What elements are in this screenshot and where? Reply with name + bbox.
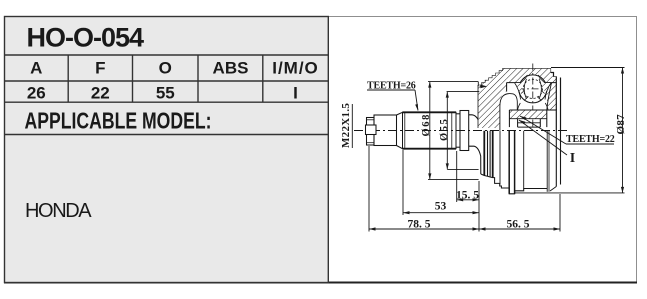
svg-text:55: 55 (156, 83, 175, 102)
thread section (367, 118, 375, 146)
dia55 extension lines (447, 91, 480, 93)
svg-text:O: O (159, 59, 172, 78)
cage arcs (515, 83, 521, 100)
ball shading (521, 75, 546, 101)
svg-text:I: I (570, 151, 575, 166)
dia68 extension lines (428, 81, 478, 83)
leader TEETH=26 (367, 89, 415, 91)
svg-text:78. 5: 78. 5 (408, 218, 431, 230)
bottom border line (4, 282, 637, 284)
right face top half (555, 77, 557, 131)
svg-text:56. 5: 56. 5 (507, 218, 530, 230)
svg-text:Ø68: Ø68 (421, 113, 432, 136)
cotter pin rect (366, 125, 377, 135)
svg-text:22: 22 (91, 83, 110, 102)
spline section (403, 112, 457, 148)
front face inner (506, 83, 508, 92)
boot flange (460, 111, 469, 151)
ball inner dashed circle (523, 79, 542, 98)
svg-text:I/M/O: I/M/O (272, 59, 319, 78)
race groove arcs (518, 103, 521, 110)
dia55 dimension line (446, 92, 448, 170)
svg-text:M22X1.5: M22X1.5 (340, 103, 352, 148)
label M22X1.5 underline (351, 104, 353, 148)
svg-text:TEETH=26: TEETH=26 (367, 81, 416, 92)
dim line 78.5 (369, 228, 479, 230)
bottom silhouette (481, 174, 547, 194)
dia87 dimension line (622, 68, 624, 193)
svg-text:ABS: ABS (213, 59, 249, 78)
svg-text:HONDA: HONDA (25, 200, 92, 222)
svg-text:APPLICABLE MODEL:: APPLICABLE MODEL: (25, 108, 212, 134)
cavity ceiling (507, 82, 557, 84)
svg-text:F: F (95, 59, 105, 78)
housing front face (477, 85, 479, 128)
race verticals (508, 110, 510, 127)
shaft to housing curves (469, 115, 481, 126)
housing top band hatched (506, 69, 558, 83)
dim line 53 (403, 212, 479, 214)
body lines bottom (499, 131, 501, 185)
neck between spline and flange (456, 113, 460, 115)
table background (5, 17, 328, 282)
chamfer to spline (397, 112, 403, 115)
dia68 dimension line (429, 82, 431, 180)
dia87 extension lines (551, 67, 625, 69)
housing left wall hatched (478, 69, 506, 128)
svg-text:TEETH=22: TEETH=22 (566, 134, 615, 145)
dim line 56.5 (479, 228, 560, 230)
svg-text:I: I (293, 83, 298, 102)
flange thick edges (508, 131, 510, 194)
svg-text:15. 5: 15. 5 (456, 189, 479, 201)
cavity floor right (547, 109, 557, 111)
table column lines (67, 55, 69, 102)
svg-text:Ø55: Ø55 (439, 118, 450, 141)
leader I (519, 120, 567, 155)
svg-text:HO-O-054: HO-O-054 (27, 23, 145, 53)
ball (519, 75, 547, 103)
race front hump (500, 94, 517, 131)
table outer border (5, 17, 329, 283)
svg-text:53: 53 (435, 201, 447, 213)
inner race hatched band (509, 110, 546, 119)
housing right wall hatched (546, 83, 557, 110)
dim line 15.5 (457, 199, 479, 201)
main cylinder (374, 115, 397, 146)
table row lines (5, 54, 329, 56)
dim extension verticals bottom (368, 146, 370, 232)
svg-text:Ø87: Ø87 (615, 114, 627, 135)
centerline (354, 130, 567, 132)
housing top: boot groove staircase (478, 69, 557, 86)
cage wedges (515, 83, 523, 93)
bottom half external: boot groove ribs (483, 131, 485, 176)
svg-text:A: A (30, 59, 42, 78)
svg-text:26: 26 (27, 83, 46, 102)
leader TEETH=22 (520, 116, 566, 144)
